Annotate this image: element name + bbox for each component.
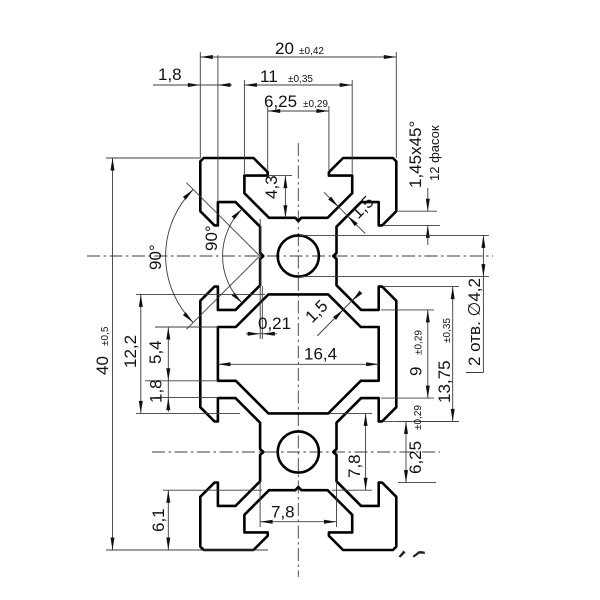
dim 1.8 top text (158, 65, 182, 84)
angle legs 90 (186, 183, 259, 330)
dim 4.3 line (283, 176, 287, 218)
center line hole 2 (152, 451, 440, 453)
dim 5.4/1.8 line (166, 327, 170, 412)
svg-text:7,8: 7,8 (271, 503, 295, 522)
dim 6.25 right extension lines (398, 421, 459, 482)
dim 6.1 text (149, 508, 168, 532)
svg-text:1,45x45°: 1,45x45° (406, 121, 425, 188)
dim 4.3 text (262, 175, 281, 199)
center line vertical (297, 143, 299, 577)
dim 0.21 text (258, 314, 291, 333)
dim 1.45 extension lines (384, 211, 440, 225)
dim 12.2 text (121, 335, 140, 368)
svg-text:6,25: 6,25 (406, 441, 425, 474)
svg-text:±0,35: ±0,35 (288, 74, 313, 85)
svg-text:16,4: 16,4 (304, 345, 337, 364)
svg-text:4,3: 4,3 (262, 175, 281, 199)
dim 9 line (426, 310, 430, 398)
dim 40 extension lines (106, 158, 268, 550)
cropped text fragments (399, 551, 426, 558)
dim 1.8 top line (153, 83, 232, 87)
dim 1.8 left text (147, 379, 166, 403)
hole 2 (dia 4.2) (278, 431, 319, 472)
dim 13.75 line (451, 287, 455, 422)
dim 1.5 top leader (324, 192, 365, 233)
svg-text:5,4: 5,4 (146, 340, 165, 364)
dim 7.8 bottom line (260, 520, 336, 524)
dim 11 text (260, 67, 313, 86)
dim 13.75 extension lines (384, 287, 459, 422)
dim 4.2 text (465, 278, 484, 366)
svg-text:1,8: 1,8 (147, 379, 166, 403)
angle arc outer 90 (166, 190, 194, 323)
svg-text:20: 20 (275, 39, 294, 58)
dim 1.45 text (406, 121, 442, 188)
svg-text:±0,29: ±0,29 (303, 99, 328, 110)
center line hole 1 (87, 255, 493, 257)
dim 6.25 right line (404, 421, 408, 482)
dim 7.8 bottom text (271, 503, 295, 522)
dim 20 extension lines (200, 52, 396, 158)
dim 20 text (275, 39, 324, 58)
angle arc inner 90 (223, 209, 242, 303)
dim 6.25 right text (406, 405, 425, 474)
dim 0.21 extension lines (260, 219, 262, 339)
dim 6.25 top extension lines (268, 106, 329, 170)
dim 40 text (93, 326, 112, 375)
dim 20 line (200, 55, 396, 59)
dim 9 text (407, 330, 426, 376)
dim 9 extension lines (381, 310, 434, 398)
dim 13.75 text (435, 318, 454, 403)
dim 16.4 line (218, 362, 379, 366)
svg-text:6,1: 6,1 (149, 508, 168, 532)
svg-text:0,21: 0,21 (258, 314, 291, 333)
dim 7.8 right extension lines (330, 413, 372, 490)
dim 6.1 line (166, 490, 170, 550)
angle outer 90 text (146, 244, 165, 270)
svg-text:12,2: 12,2 (121, 335, 140, 368)
svg-text:2 отв. ∅4,2: 2 отв. ∅4,2 (465, 278, 484, 366)
dim 11 line (244, 83, 352, 87)
profile outline (200, 158, 396, 550)
dim 1.5 mid text (301, 296, 331, 326)
dim 4.2 line (466, 235, 485, 372)
dim 16.4 text (304, 345, 337, 364)
dim 1.8 top extension line (217, 55, 219, 202)
svg-text:±0,35: ±0,35 (442, 318, 453, 343)
svg-text:7,8: 7,8 (345, 454, 364, 478)
hole 1 (dia 4.2) (278, 235, 319, 276)
dim 6.1 extension line (163, 489, 262, 491)
mid cavity (218, 294, 379, 413)
svg-text:40: 40 (93, 356, 112, 375)
dim 40 line (111, 158, 115, 550)
svg-text:90°: 90° (202, 225, 221, 251)
dim 4.2 extension lines (300, 235, 489, 276)
dim 5.4 text (146, 340, 165, 364)
dim 12.2 extension lines (136, 294, 265, 413)
dim 6.25 top line (268, 109, 329, 113)
dim 7.8 bottom extension lines (260, 481, 336, 527)
svg-text:1,5: 1,5 (301, 296, 331, 326)
dim 1.5 mid leader (317, 291, 362, 336)
svg-text:±0,29: ±0,29 (414, 330, 425, 355)
dim 6.25 top text (264, 92, 328, 111)
dim 1.45 lines (426, 188, 430, 245)
svg-text:12 фасок: 12 фасок (427, 125, 442, 181)
svg-text:11: 11 (260, 67, 278, 86)
svg-text:13,75: 13,75 (435, 360, 454, 403)
dim 0.21 line (246, 332, 277, 336)
dim 1.8 left extension line (155, 397, 218, 399)
svg-text:1,8: 1,8 (158, 65, 182, 84)
dim 7.8 right line (364, 413, 368, 490)
svg-text:±0,42: ±0,42 (299, 46, 324, 57)
dim 4.3 extension line (268, 175, 292, 177)
dim 11 extension lines (244, 80, 352, 174)
svg-text:9: 9 (407, 367, 426, 376)
svg-text:90°: 90° (146, 244, 165, 270)
svg-text:±0,5: ±0,5 (100, 326, 111, 346)
dim 7.8 right text (345, 454, 364, 478)
svg-text:6,25: 6,25 (264, 92, 297, 111)
svg-text:1,5: 1,5 (347, 192, 377, 222)
angle inner 90 text (202, 225, 221, 251)
dim 12.2 line (139, 294, 143, 413)
dim 1.5 top text (347, 192, 377, 222)
svg-text:±0,29: ±0,29 (413, 405, 424, 430)
dim 5.4 extension lines (145, 327, 218, 381)
